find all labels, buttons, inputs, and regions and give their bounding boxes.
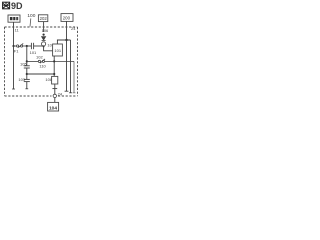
wire below 108	[54, 84, 56, 94]
svg-text:10: 10	[47, 42, 52, 47]
mid vertical from module bottom	[53, 56, 55, 76]
wire: box3 lead down	[66, 21, 68, 40]
svg-text:106: 106	[42, 28, 49, 33]
wire: line C down (faint)	[73, 61, 75, 92]
svg-text:24: 24	[71, 26, 76, 31]
svg-text:200: 200	[63, 16, 71, 21]
wire: leader line of 100	[29, 18, 32, 26]
wire to bottom box	[54, 98, 56, 103]
block 200 (top-right box)	[61, 14, 73, 22]
block 104 (bottom box)	[48, 102, 59, 111]
svg-text:103: 103	[18, 77, 25, 82]
node	[26, 73, 28, 75]
node at wire meet	[43, 45, 45, 47]
capacitor C1 (series)	[31, 43, 43, 49]
wire: line A down	[66, 40, 68, 91]
node	[26, 60, 28, 62]
block 202 (top-left box)	[8, 15, 20, 22]
wire: box1 lead down	[13, 22, 15, 46]
node: junction at rail top	[26, 45, 28, 47]
lamp/terminal circle	[42, 42, 46, 46]
module 101 (mid box)	[53, 44, 63, 56]
svg-text:104: 104	[49, 105, 57, 111]
capacitor C2	[24, 66, 30, 80]
wire into module	[44, 46, 53, 51]
diode D1 on box2 lead	[43, 34, 45, 36]
node: junction on input line	[12, 45, 14, 47]
svg-text:F1: F1	[14, 48, 19, 53]
wire to capacitor	[27, 45, 31, 47]
wire: riser from module top	[57, 40, 70, 44]
rail down from node, cap stack	[26, 46, 28, 66]
svg-text:24: 24	[58, 91, 63, 96]
svg-text:101: 101	[54, 48, 61, 53]
wire: box2 lead down	[43, 22, 45, 32]
svg-text:110: 110	[39, 63, 46, 68]
wire: line B down	[70, 40, 72, 93]
capacitor C3	[24, 79, 30, 88]
figure title 図9D	[3, 2, 10, 9]
wire: input line continues to bottom	[13, 46, 15, 89]
block 202 (top-middle box)	[38, 15, 47, 22]
node on line A	[65, 39, 67, 41]
terminal circle on border	[53, 94, 56, 97]
svg-text:100: 100	[27, 13, 35, 19]
switch S1	[14, 43, 27, 47]
svg-text:105: 105	[20, 62, 27, 67]
wire y74	[27, 73, 54, 75]
svg-text:9D: 9D	[11, 1, 23, 11]
svg-text:102: 102	[36, 54, 43, 59]
svg-text:11: 11	[15, 28, 20, 33]
dashed enclosure 10	[5, 27, 78, 96]
svg-text:202: 202	[40, 16, 48, 21]
